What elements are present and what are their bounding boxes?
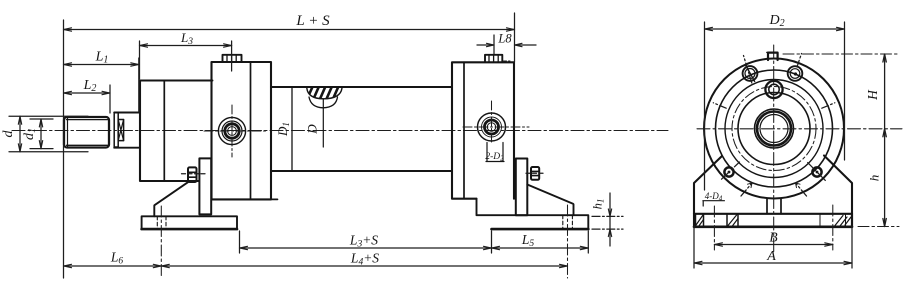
bolt hole top-left — [743, 56, 758, 84]
cylinder tube — [271, 87, 452, 171]
left extension line (rod end face) — [63, 20, 65, 278]
svg-text:h1: h1 — [591, 199, 606, 210]
svg-text:D: D — [305, 124, 320, 135]
extension for L3 left — [139, 41, 141, 79]
svg-text:A: A — [766, 249, 776, 264]
rear port boss circle — [463, 101, 529, 144]
extension for L2 — [109, 85, 111, 113]
front port block — [212, 62, 278, 199]
svg-text:L8: L8 — [497, 32, 512, 46]
front port boss circle — [204, 105, 266, 157]
svg-text:L1: L1 — [95, 50, 109, 66]
dimension d1 — [30, 119, 53, 149]
svg-text:4-D4: 4-D4 — [705, 191, 723, 202]
bracket pin hole left — [722, 162, 740, 179]
bracket pin hole right — [808, 163, 826, 181]
end view main circles — [704, 59, 844, 199]
rear foot stud nut — [526, 167, 546, 180]
port hole section (hatched tube wall + counterbore arc) — [307, 88, 344, 148]
dimension H — [783, 53, 899, 55]
svg-text:d1: d1 — [22, 128, 38, 140]
front foot base — [142, 206, 237, 278]
dimension L1 — [64, 63, 139, 66]
extension line right of L+S — [514, 13, 516, 62]
dimension L8 — [477, 43, 536, 46]
main centerline — [12, 130, 668, 132]
rear foot gusset — [527, 185, 573, 216]
front port fitting (plug) — [223, 55, 242, 62]
dimension L3+S and L5 line — [240, 246, 589, 249]
head block (front gland) — [140, 81, 212, 182]
dimension A — [694, 226, 852, 268]
svg-text:D1: D1 — [275, 122, 291, 137]
svg-text:L6: L6 — [110, 250, 124, 267]
extension for L8 — [493, 35, 495, 54]
svg-text:h: h — [867, 175, 882, 182]
rear port fitting (plug) — [485, 55, 510, 62]
svg-text:L4+S: L4+S — [350, 251, 379, 268]
bracket base hatching left — [696, 214, 739, 227]
dimension L+S — [64, 28, 515, 31]
extension rear base left corner — [491, 231, 493, 253]
dimension L2 — [64, 91, 111, 94]
bolt hole top-right — [788, 54, 803, 81]
svg-text:B: B — [769, 230, 777, 245]
extension for L1 — [138, 58, 140, 112]
front mounting plate — [199, 158, 211, 214]
svg-text:L + S: L + S — [295, 13, 330, 29]
rod thread section — [64, 117, 109, 148]
label 4-D4 (foundation holes) — [703, 191, 725, 206]
extension for L3 right (port axis) — [231, 41, 233, 71]
dimension h1 — [592, 193, 623, 246]
dimension L6 and L4+S line — [64, 264, 568, 267]
svg-text:L3+S: L3+S — [349, 233, 378, 250]
bracket base hatching right — [820, 214, 851, 227]
rod neck with locknut X section — [114, 113, 140, 148]
end view centerlines — [697, 45, 902, 252]
rear foot base — [477, 199, 589, 278]
top center hole — [765, 81, 782, 98]
bottom bolt position marks — [741, 183, 807, 196]
label 2-D2 (ports callout) — [485, 143, 504, 163]
svg-text:L5: L5 — [521, 232, 535, 249]
rear mounting plate — [516, 159, 528, 216]
front foot gusset — [154, 182, 188, 217]
svg-text:d: d — [1, 130, 16, 138]
dimension D2 — [704, 22, 706, 190]
dimension B — [713, 206, 715, 250]
front foot stud nut — [182, 167, 207, 182]
dimension d — [9, 116, 88, 152]
extension rear base right corner — [587, 231, 589, 253]
bolt circle side tick marks — [713, 103, 835, 108]
svg-text:2-D2: 2-D2 — [485, 152, 504, 163]
rear cap block — [452, 62, 514, 198]
extension front base right corner — [239, 231, 241, 253]
dimension L3 — [140, 44, 232, 47]
svg-text:D2: D2 — [768, 13, 784, 29]
svg-text:L3: L3 — [180, 30, 193, 47]
svg-text:H: H — [865, 89, 880, 101]
end view bracket — [694, 156, 852, 227]
top fitting square — [767, 52, 778, 60]
svg-text:L2: L2 — [83, 78, 97, 94]
